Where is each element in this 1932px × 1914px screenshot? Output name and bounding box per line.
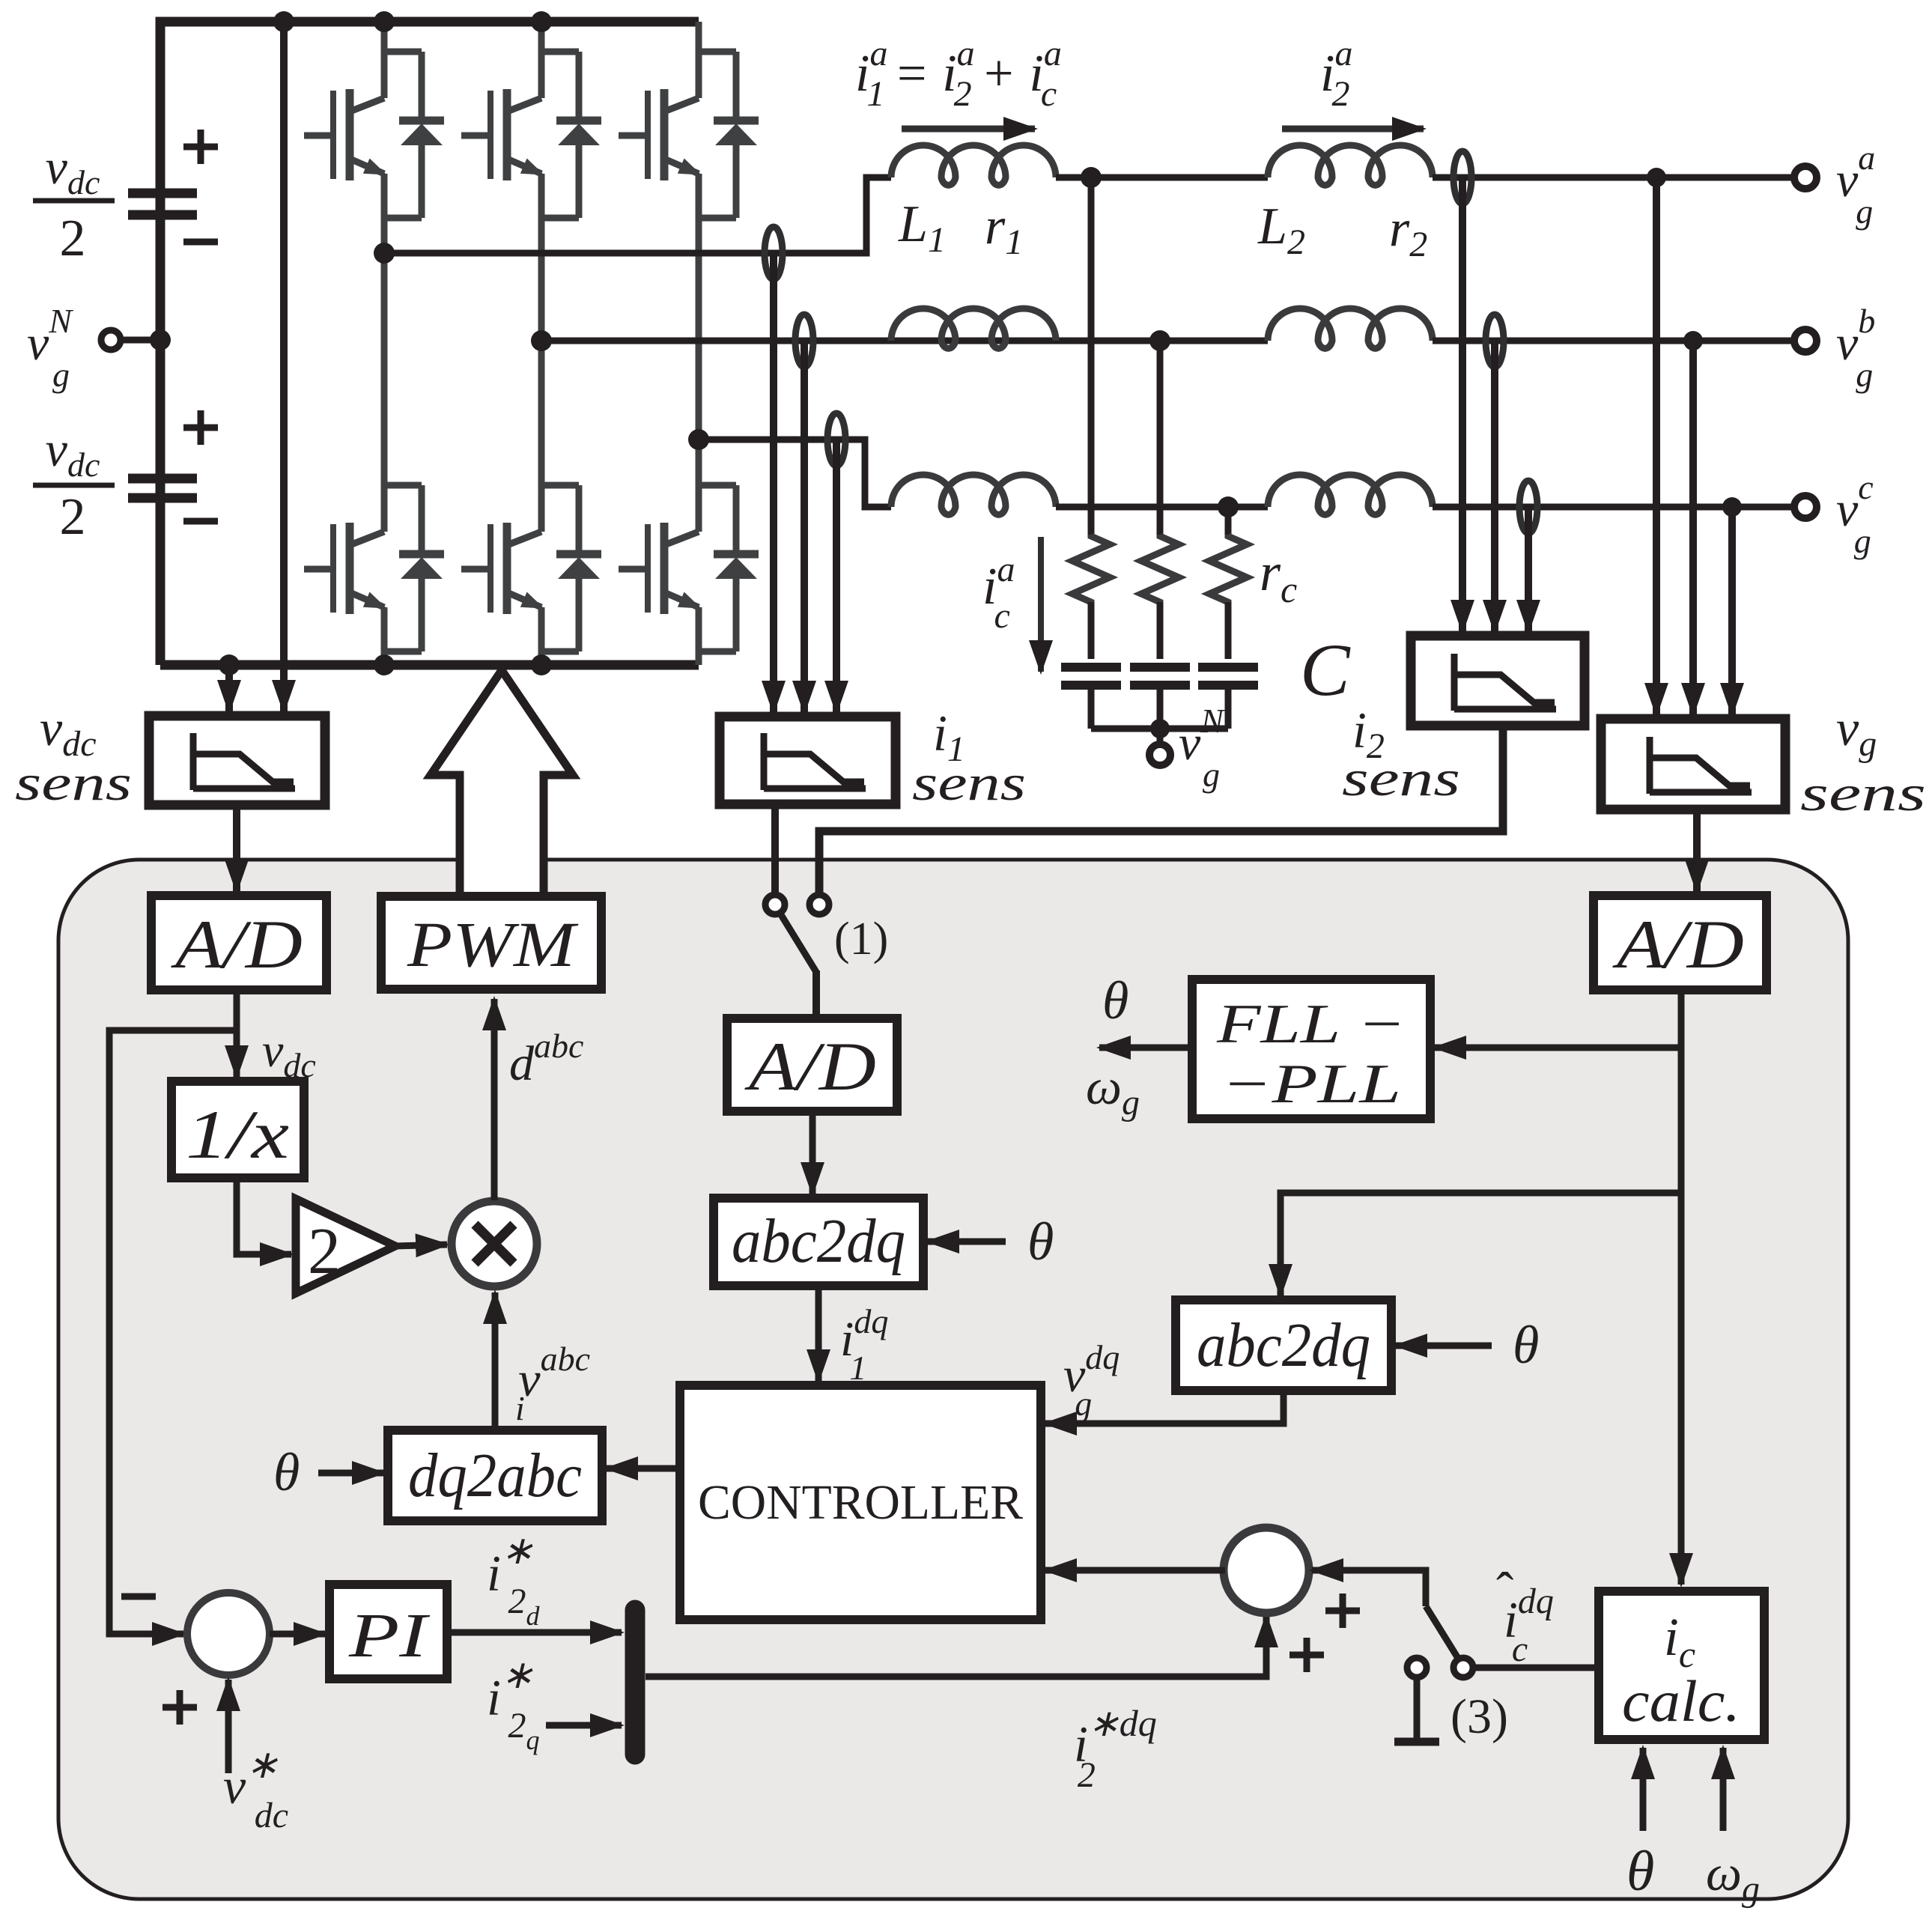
gain block 2 (triangle) [296, 1199, 395, 1293]
wire: i2*dq reference to summing S2 [645, 1616, 1266, 1677]
wire: vdc sense tap from DC- [225, 665, 233, 711]
junction dots on phase rows [1081, 167, 1742, 517]
svg-text:C: C [1300, 628, 1351, 711]
wire: phase b to grid terminal [1433, 338, 1795, 344]
svg-text:calc.: calc. [1622, 1668, 1740, 1734]
wire: i1 sense drop phase a [770, 253, 777, 712]
wire: vdc feedback branch to summing [109, 1030, 237, 1634]
wire: vdc sens output to A/D [233, 805, 240, 891]
arrow theta into abc2dq (i1) [928, 1239, 1006, 1245]
switch (3) lever [1426, 1606, 1459, 1659]
arrow CONTROLLER to dq2abc [607, 1465, 680, 1472]
CT oval i2 phase b [1486, 315, 1504, 367]
wire: switch (1) to A/D [812, 970, 820, 1018]
wire: leg c upper emitter to phase node [696, 218, 702, 444]
wire: DC- bottom bus [160, 660, 699, 670]
shunt branch phase c: wire, resistor rc, capacitor C [1198, 507, 1258, 729]
switch (3) open contact [1407, 1658, 1427, 1677]
block 1/x [171, 1081, 304, 1178]
inductor L1 phase a [891, 145, 1056, 185]
node vgN terminal (filter) [1149, 744, 1170, 765]
CT oval i1 phase c [827, 413, 845, 466]
node vgN terminal (left) [101, 330, 121, 350]
wire: phase a after L1 [1056, 174, 1268, 181]
summing junction S1 (vdc loop) [187, 1593, 270, 1675]
arrow vdc* reference into S1 [225, 1680, 232, 1773]
wire: gain 2 to multiplier [395, 1245, 447, 1246]
summing junction S2 (reference + ic) [1224, 1528, 1309, 1613]
capacitor Cdc1 (vdc/2 upper) [128, 22, 197, 340]
wire: phase a from leg midpoint [384, 177, 891, 253]
svg-text:A/D: A/D [170, 906, 303, 982]
arrow i2q* reference into mux [546, 1722, 622, 1729]
sign + at S2 right input [1325, 1594, 1360, 1628]
wire: i2 sense drop phase b [1491, 341, 1498, 631]
wire: leg b bottom emitter to DC- [538, 651, 545, 665]
block FLL-PLL [1192, 979, 1430, 1119]
block PWM [381, 896, 601, 989]
svg-text:sens: sens [15, 754, 132, 811]
svg-text:(3): (3) [1450, 1689, 1508, 1744]
wire: i2 sens output return to switch [819, 726, 1503, 896]
svg-text:θ: θ [273, 1442, 300, 1502]
wire: A/D vdc output with branch [234, 990, 240, 1077]
inductor L1 phase b [891, 309, 1056, 348]
node phase c midpoint [688, 429, 709, 450]
svg-text:PWM: PWM [407, 908, 579, 980]
wire: phase b from leg midpoint [541, 338, 1268, 344]
svg-text:θ: θ [1513, 1315, 1539, 1375]
label vdc/2 upper [33, 140, 115, 267]
PWM gate drive big arrow [431, 670, 573, 896]
node phase b midpoint [531, 330, 552, 351]
polarity + of Cdc1 [183, 130, 218, 164]
node shunt neutral junction [1150, 719, 1170, 738]
arrow FLL-PLL output [1099, 1045, 1192, 1051]
wire: A/D i1 to abc2dq [809, 1111, 816, 1194]
arrow i2 direction [1282, 126, 1424, 133]
wire: vg sense drop phase c [1728, 507, 1736, 714]
arrow theta into ic calc [1640, 1748, 1647, 1831]
transistor Q4 (leg b bottom IGBT with diode) [538, 341, 545, 485]
CT oval i2 phase a [1453, 151, 1471, 204]
sign + at S2 bottom input [1289, 1638, 1324, 1672]
wire: multiplier to PWM (dabc) [491, 999, 498, 1200]
sensor block i2 sens [1411, 636, 1585, 726]
capacitor Cdc2 (vdc/2 lower) [128, 340, 197, 665]
junction dots on DC buses [150, 11, 552, 675]
wire: shunt neutral rail [1091, 726, 1228, 732]
CT oval i2 phase c [1519, 481, 1537, 533]
wire: ic calc output to switch (3) [1473, 1665, 1599, 1671]
wire: leg a bottom emitter to DC- [381, 651, 388, 665]
sensor block i1 sens [720, 717, 896, 804]
shunt branch phase a: wire, resistor rc, capacitor C [1061, 177, 1121, 729]
wire: DC+ top bus [160, 22, 699, 660]
block CONTROLLER [680, 1385, 1041, 1620]
svg-text:ˆ: ˆ [1496, 1563, 1513, 1620]
svg-text:dq2abc: dq2abc [408, 1441, 582, 1510]
wire: phase c to grid terminal [1433, 504, 1795, 511]
sign - at S1 [121, 1594, 156, 1600]
polarity - of Cdc1 [183, 239, 218, 246]
block ic calc [1599, 1591, 1764, 1740]
switch (1) throw contact [809, 895, 829, 914]
svg-text:θ: θ [1102, 970, 1128, 1030]
svg-text:sens: sens [1800, 765, 1926, 821]
terminal vgc [1794, 496, 1817, 518]
wire: vg sense drop phase b [1689, 341, 1697, 714]
switch (1) lever [780, 914, 816, 972]
CT oval i1 phase a [765, 227, 783, 279]
wire: phase c after L1 [1056, 504, 1268, 511]
svg-text:CONTROLLER: CONTROLLER [698, 1475, 1023, 1530]
svg-text:FLL −: FLL − [1216, 994, 1406, 1055]
polarity + of Cdc2 [183, 410, 218, 445]
wire: stub to vgN terminal [1157, 729, 1164, 744]
wire: phase a to grid terminal [1433, 174, 1795, 181]
wire: A/D vg output vertical [1678, 990, 1685, 1585]
svg-text:abc2dq: abc2dq [1197, 1310, 1370, 1380]
wire: switch (3) to S2 [1312, 1570, 1426, 1606]
wire: 1/x output to gain 2 [237, 1178, 291, 1254]
wire: branch to FLL-PLL [1435, 1045, 1681, 1051]
multiplier (x) [452, 1201, 537, 1286]
svg-text:A/D: A/D [1611, 906, 1744, 982]
wire: i1 sense drop phase b [801, 341, 808, 712]
wire: branch to abc2dq (vg) [1281, 1193, 1681, 1295]
block A/D (vdc) [151, 896, 326, 990]
svg-text:abc2dq: abc2dq [732, 1206, 905, 1276]
wire: abc2dq to CONTROLLER (i1dq) [815, 1286, 822, 1381]
ground stub at switch (3) [1414, 1677, 1421, 1739]
block A/D (vg) [1594, 896, 1767, 990]
sensor block vg sens [1601, 719, 1785, 809]
svg-text:2: 2 [60, 210, 86, 267]
wire: abc2dq vg output to CONTROLLER (vgdq) [1045, 1391, 1284, 1424]
wire: leg c bottom emitter to DC- [696, 651, 702, 665]
inductor L2 phase a [1268, 145, 1433, 185]
node phase a midpoint [374, 243, 395, 264]
svg-text:2: 2 [60, 488, 86, 546]
sign + at S1 [162, 1690, 197, 1725]
svg-text:sens: sens [912, 754, 1026, 811]
CT oval i1 phase b [795, 315, 813, 367]
shunt branch phase b: wire, resistor rc, capacitor C [1130, 341, 1190, 729]
svg-text:ia2: ia2 [1320, 34, 1352, 114]
controller DSP region (gray rounded box) [58, 860, 1848, 1899]
wire: phase c from leg midpoint [699, 440, 891, 507]
sensor block vdc sens [149, 716, 325, 805]
svg-text:θ: θ [1027, 1212, 1054, 1272]
polarity - of Cdc2 [183, 518, 218, 525]
svg-text:1/x: 1/x [186, 1096, 289, 1173]
svg-text:θ: θ [1626, 1840, 1654, 1903]
svg-text:2: 2 [308, 1215, 341, 1288]
mux bar [625, 1610, 645, 1754]
wire: i2 sense drop phase c [1525, 507, 1532, 631]
arrow PI to mux (i2d*) [447, 1629, 622, 1636]
wire: leg b upper emitter to phase node [538, 218, 545, 345]
wire: vdc sense tap vertical from DC+ [280, 22, 288, 711]
transistor Q2 (leg a bottom IGBT with diode) [381, 253, 388, 485]
block abc2dq (i1) [714, 1198, 923, 1286]
transistor Q1 (leg a top IGBT with diode) [381, 22, 388, 52]
wire: vg sens output to A/D [1693, 809, 1701, 891]
arrow theta into dq2abc [318, 1470, 383, 1477]
terminal vga [1794, 166, 1817, 189]
inductor L2 phase c [1268, 475, 1433, 514]
block dq2abc [388, 1430, 602, 1521]
transistor Q5 (leg c top IGBT with diode) [696, 22, 702, 52]
arrow theta into abc2dq (vg) [1396, 1343, 1492, 1349]
switch (1) pole contact [765, 895, 785, 914]
wire: vgN to midpoint [121, 337, 160, 344]
block PI [329, 1585, 447, 1679]
label vdc/2 lower [33, 422, 115, 546]
svg-text:A/D: A/D [744, 1028, 876, 1105]
arrow i1 direction [902, 126, 1035, 133]
switch (3) throw contact [1453, 1658, 1473, 1677]
wire: i2 sense drop phase a [1459, 177, 1466, 631]
transistor Q3 (leg b top IGBT with diode) [538, 22, 545, 52]
svg-text:(1): (1) [834, 914, 888, 964]
block A/D (i1) [727, 1018, 897, 1111]
wire: i1 sens output to switch pole [771, 804, 779, 893]
svg-text:PI: PI [348, 1601, 431, 1671]
wire: leg a upper emitter to phase node [381, 218, 388, 258]
block abc2dq (vg) [1176, 1300, 1391, 1391]
arrow S2 to CONTROLLER [1045, 1567, 1225, 1574]
arrow S1 to PI [270, 1631, 325, 1638]
terminal vgb [1794, 329, 1817, 352]
wire: dq2abc output viabc to multiplier [492, 1292, 499, 1430]
wire: i1 sense drop phase c [833, 440, 840, 712]
arrow omega g into ic calc [1720, 1748, 1727, 1831]
svg-text:sens: sens [1342, 750, 1460, 806]
inductor L2 phase b [1268, 309, 1433, 348]
inductor L1 phase c [891, 475, 1056, 514]
arrow ica shunt current [1038, 537, 1044, 672]
transistor Q6 (leg c bottom IGBT with diode) [696, 440, 702, 485]
wire: vg sense drop phase a [1653, 177, 1660, 714]
svg-text:−PLL: −PLL [1221, 1054, 1401, 1115]
